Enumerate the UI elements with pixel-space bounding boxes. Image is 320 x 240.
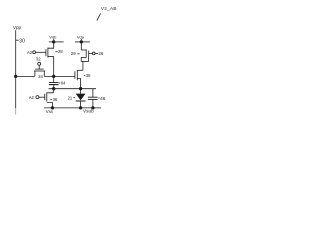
transistor 24 right leg — [43, 71, 45, 76]
wire mid right to gate of 38 — [44, 75, 75, 77]
node 30 tick — [16, 39, 19, 41]
svg-text:26: 26 — [98, 51, 104, 56]
supply tap Vda rail — [75, 41, 90, 43]
transistor 29 drain stub — [81, 49, 86, 51]
wire 29 drain — [80, 42, 82, 50]
transistor 28 gate bar — [45, 49, 47, 56]
wire 28 source down to node — [53, 56, 55, 76]
junction dot bottom rail left — [51, 106, 54, 109]
svg-text:A2: A2 — [27, 50, 33, 55]
wire 29 gate tie riser — [88, 57, 90, 61]
transistor 24 gate bar — [35, 68, 43, 70]
capacitor 46 top plate — [88, 96, 98, 98]
junction dot Vdb — [52, 40, 55, 43]
svg-text:Vda: Vda — [77, 35, 85, 40]
diode 21 anode wire — [80, 89, 82, 94]
leader line to net V2_AB — [97, 13, 101, 20]
junction dot bottom rail diode — [79, 106, 82, 109]
transistor 29 gate bar — [88, 51, 90, 58]
junction dot Vda — [80, 40, 83, 43]
wire A2 to gate of 28 — [36, 51, 46, 53]
svg-text:21: 21 — [68, 95, 73, 100]
wire 29 source to gate tie — [81, 60, 88, 62]
junction dot on Vpp rail — [14, 75, 17, 78]
input 26 gate lead — [89, 52, 93, 54]
svg-text:46: 46 — [100, 96, 106, 102]
transistor 38 gate bar — [74, 71, 76, 79]
transistor 29 channel — [85, 49, 87, 57]
input terminal 32 circle — [38, 62, 41, 65]
svg-text:32: 32 — [36, 57, 41, 62]
transistor 38 drain stub — [77, 69, 83, 71]
power rail Vpp wire — [15, 30, 17, 108]
svg-text:Vsub: Vsub — [83, 109, 94, 114]
input A2 (bottom) terminal circle — [36, 96, 39, 99]
diode 21 cathode wire — [80, 101, 82, 108]
wire mid left — [16, 75, 35, 77]
transistor 28 label leader — [55, 51, 57, 53]
wire A2 to gate of 36 — [39, 96, 45, 98]
capacitor 64 top plate — [49, 82, 59, 84]
transistor 36 drain stub — [47, 89, 54, 93]
junction dot mid rail right — [79, 87, 82, 90]
transistor 38 channel — [76, 70, 78, 80]
junction dot bottom rail cap — [91, 106, 94, 109]
input terminal 32 stem — [38, 65, 40, 69]
transistor 28 drain stub — [48, 42, 54, 48]
transistor 28 source stub — [48, 55, 54, 57]
transistor 29 label leader — [77, 53, 79, 55]
svg-text:64: 64 — [61, 80, 66, 85]
capacitor 46 label leader — [98, 97, 99, 99]
svg-text:Vdb: Vdb — [49, 35, 57, 40]
transistor 24 left leg — [34, 71, 36, 76]
bottom rail — [44, 107, 101, 109]
diode 21 cathode bar — [76, 100, 86, 102]
input A2 (top) terminal circle — [33, 51, 36, 54]
svg-text:Vss: Vss — [46, 109, 53, 114]
svg-text:29: 29 — [71, 51, 77, 56]
svg-text:Vpp: Vpp — [13, 25, 22, 30]
transistor 28 channel — [47, 48, 49, 58]
svg-text:36: 36 — [53, 97, 58, 102]
diode 21 label leader — [73, 97, 75, 99]
transistor 36 source stub — [47, 103, 53, 108]
transistor 36 channel — [46, 93, 48, 102]
transistor 36 gate bar — [44, 94, 46, 100]
svg-text:24: 24 — [38, 74, 43, 79]
input 26 leader — [95, 52, 98, 54]
svg-text:38: 38 — [86, 73, 91, 78]
junction dot node 28 drain — [52, 75, 55, 78]
junction dot mid rail left — [52, 87, 55, 90]
mid rail — [49, 88, 96, 90]
transistor 38 source stub — [77, 79, 80, 89]
transistor 36 label leader — [50, 99, 52, 101]
supply tap Vdb rail — [49, 41, 64, 43]
svg-text:A2: A2 — [29, 95, 35, 100]
capacitor 64 bottom wire — [53, 85, 55, 89]
svg-text:30: 30 — [19, 38, 25, 44]
transistor 38 label leader — [84, 74, 85, 76]
supply tap Vdb tick — [53, 39, 55, 41]
diode 21 triangle — [76, 94, 86, 101]
transistor 24 channel — [34, 70, 45, 72]
capacitor 64 label leader — [59, 82, 60, 84]
svg-text:V2_AB: V2_AB — [101, 6, 117, 11]
capacitor 46 top wire — [92, 89, 94, 97]
capacitor 64 top wire — [53, 76, 55, 82]
capacitor 64 bottom plate — [49, 84, 59, 86]
capacitor 46 bottom wire — [92, 100, 94, 108]
svg-text:28: 28 — [58, 49, 63, 54]
transistor 29 source stub — [81, 56, 86, 58]
capacitor 46 bottom plate — [88, 98, 98, 100]
supply tap Vda tick — [80, 39, 82, 41]
wire down to 38 drain — [82, 61, 84, 70]
wire 29 source down — [80, 57, 82, 61]
input 26 terminal circle — [92, 52, 95, 55]
